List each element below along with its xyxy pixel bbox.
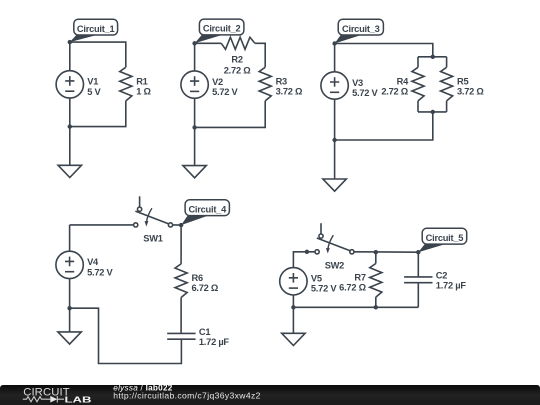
wire circuit3 left branch top stub <box>417 57 419 68</box>
wire circuit5 ground stem <box>292 307 294 333</box>
svg-text:3.72 Ω: 3.72 Ω <box>276 87 303 97</box>
wire circuit4 C1 to bottom rail <box>70 308 182 363</box>
wire circuit3 ground stem <box>334 140 336 179</box>
wire circuit2 top rail left <box>195 42 222 44</box>
svg-text:1.72 µF: 1.72 µF <box>199 337 230 347</box>
wire circuit1 top rail <box>70 42 126 67</box>
resistor R4 <box>381 67 424 101</box>
wire circuit3 down-to-bottom rail <box>335 112 433 140</box>
ground circuit5 GND <box>282 333 305 345</box>
svg-text:5.72 V: 5.72 V <box>87 267 113 277</box>
svg-text:5.72 V: 5.72 V <box>352 88 378 98</box>
wire circuit5 R7 top stub <box>375 252 377 263</box>
wire circuit2 right-to-bottom <box>195 101 266 128</box>
svg-text:C2: C2 <box>436 271 447 281</box>
wire circuit3 V3 bottom <box>334 99 336 140</box>
wire circuit4 SW1 common to node <box>173 224 181 226</box>
node circuit4 bottom junction <box>67 306 71 310</box>
node circuit2 top-left <box>192 41 196 45</box>
node circuit5 bottom junction <box>291 305 295 309</box>
svg-text:5.72 V: 5.72 V <box>212 87 238 97</box>
svg-text:CIRCUIT: CIRCUIT <box>23 386 70 398</box>
svg-text:R7: R7 <box>354 273 365 283</box>
switch SW2 (SW2) <box>315 223 354 270</box>
ground circuit2 GND <box>183 166 206 178</box>
svg-text:Circuit_3: Circuit_3 <box>342 24 380 34</box>
wire circuit3 bottom bracket <box>418 111 447 113</box>
resistor R3 <box>259 67 303 101</box>
wire circuit3 left (V3 top) <box>334 44 336 72</box>
node circuit1 top-left <box>68 40 72 44</box>
svg-text:2.72 Ω: 2.72 Ω <box>224 65 251 75</box>
wire circuit4 top rail (V4 to SW1) <box>70 224 134 226</box>
svg-text:6.72 Ω: 6.72 Ω <box>192 283 219 293</box>
wire circuit2 V2 bottom <box>194 98 196 127</box>
wire circuit1 ground stem <box>69 127 71 166</box>
svg-text:http://circuitlab.com/c7jq36y3: http://circuitlab.com/c7jq36y3xw4z2 <box>113 390 260 400</box>
svg-text:R5: R5 <box>457 76 468 86</box>
svg-text:1.72 µF: 1.72 µF <box>436 281 467 291</box>
node circuit5 R7 top node <box>374 250 378 254</box>
wire circuit1 left (V1 top) <box>69 42 71 71</box>
ground circuit3 GND <box>323 179 346 191</box>
label Circuit_3 <box>335 19 384 43</box>
svg-text:2.72 Ω: 2.72 Ω <box>381 87 408 97</box>
svg-text:R4: R4 <box>397 76 409 86</box>
label Circuit_1 <box>70 19 118 42</box>
svg-text:LAB: LAB <box>65 396 93 405</box>
wire circuit3 left branch bottom stub <box>417 101 419 112</box>
wire circuit1 V1 bottom <box>69 98 71 127</box>
voltage source V3 <box>321 72 379 99</box>
resistor R7 <box>339 264 382 298</box>
wire circuit2 ground stem <box>194 127 196 165</box>
node circuit3 top-left <box>332 41 336 45</box>
wire circuit5 C2 top stub <box>417 252 419 277</box>
svg-text:3.72 Ω: 3.72 Ω <box>457 87 484 97</box>
resistor R6 <box>175 264 219 298</box>
ground circuit4 GND <box>58 332 81 344</box>
wire circuit5 R7 bottom stub <box>375 297 377 307</box>
wire circuit4 R6 to C1 <box>180 298 182 334</box>
node circuit5 C2 top node <box>416 250 420 254</box>
node circuit2 bottom junction <box>192 125 196 129</box>
voltage source V2 <box>181 71 239 98</box>
voltage source V5 <box>280 268 338 295</box>
capacitor C2 (C2) <box>404 271 466 291</box>
node circuit3 parallel bottom node <box>431 110 435 114</box>
svg-text:V5: V5 <box>311 274 322 284</box>
node circuit3 bottom junction <box>332 138 336 142</box>
node circuit4 top node <box>179 223 183 227</box>
svg-text:5.72 V: 5.72 V <box>311 284 337 294</box>
node circuit5 R7 bottom node <box>374 305 378 309</box>
svg-text:SW1: SW1 <box>143 234 162 244</box>
svg-text:R1: R1 <box>136 76 147 86</box>
svg-text:5 V: 5 V <box>87 87 101 97</box>
wire circuit5 SW2 common to C2 node <box>354 251 418 253</box>
wire circuit4 V4 bottom <box>69 279 71 309</box>
svg-text:V1: V1 <box>87 77 98 87</box>
wire circuit3 right branch top stub <box>446 57 448 68</box>
wire circuit2 top rail right <box>255 43 265 67</box>
wire circuit3 top rail <box>335 44 433 57</box>
node circuit1 bottom junction <box>68 124 72 128</box>
svg-text:1 Ω: 1 Ω <box>136 87 151 97</box>
svg-text:R2: R2 <box>231 54 242 64</box>
label Circuit_2 <box>195 19 244 43</box>
svg-text:Circuit_4: Circuit_4 <box>188 204 227 214</box>
resistor R5 <box>441 67 485 101</box>
svg-text:Circuit_2: Circuit_2 <box>203 24 241 34</box>
wire circuit1 right-to-bottom <box>70 101 126 127</box>
svg-text:SW2: SW2 <box>325 260 344 270</box>
resistor R2 <box>221 37 255 75</box>
wire circuit5 C2 bottom stub <box>417 283 419 308</box>
svg-text:Circuit_5: Circuit_5 <box>426 233 464 243</box>
wire circuit2 left (V2 top) <box>194 43 196 71</box>
svg-text:Circuit_1: Circuit_1 <box>77 24 115 34</box>
wire circuit4 node down to R6 <box>180 225 182 264</box>
wire circuit3 right branch bottom stub <box>446 101 448 112</box>
ground circuit1 GND <box>58 165 81 177</box>
svg-text:V4: V4 <box>87 257 99 267</box>
wire circuit5 bottom rail <box>293 306 418 308</box>
switch SW1 (SW1) <box>134 196 173 243</box>
wire circuit5 V5 top wire <box>293 252 315 268</box>
capacitor C1 (C1) <box>167 327 229 347</box>
svg-text:R3: R3 <box>276 76 287 86</box>
svg-text:V3: V3 <box>352 78 363 88</box>
svg-text:C1: C1 <box>199 327 210 337</box>
voltage source V4 <box>56 251 114 278</box>
svg-text:6.72 Ω: 6.72 Ω <box>339 283 366 293</box>
label Circuit_4 <box>181 200 229 225</box>
logo resistor-diode glyph <box>23 396 64 403</box>
svg-text:V2: V2 <box>212 77 223 87</box>
resistor R1 <box>120 67 152 101</box>
wire circuit4 ground stem <box>69 308 71 332</box>
wire circuit4 left (V4 top) <box>69 225 71 251</box>
label Circuit_5 <box>418 228 466 252</box>
voltage source V1 <box>56 71 101 98</box>
wire circuit3 top bracket <box>418 56 447 58</box>
node circuit5 wire node <box>305 250 309 254</box>
wire circuit5 V5 bottom <box>292 295 294 307</box>
svg-text:R6: R6 <box>192 273 203 283</box>
node circuit3 parallel top node <box>431 55 435 59</box>
